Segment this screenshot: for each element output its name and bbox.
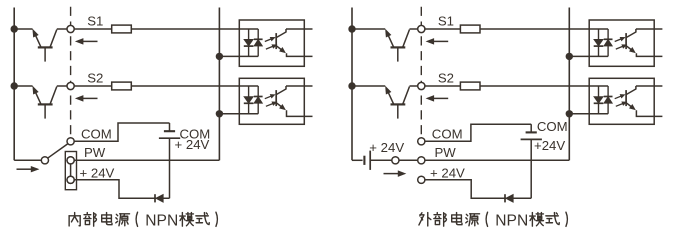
svg-text:COM: COM [81,126,112,141]
op-amp U2 optocoupler [216,78,313,124]
wire PW net riser [568,8,570,161]
wire [74,85,112,87]
wire arrow [433,97,448,99]
diode D2 [504,194,506,202]
node +24V terminal [67,176,74,183]
node [348,82,355,89]
battery B1 24V [169,123,171,131]
node PW terminal circle [67,157,74,164]
svg-text:+ 24V: + 24V [430,165,465,180]
wire bus to battery [352,159,363,161]
label caption [69,213,80,226]
op-amp U3 optocoupler [566,20,663,66]
diode D1 [154,194,156,202]
node [11,82,18,89]
jumper block J1 [65,152,76,190]
wire [480,28,589,30]
transistor Q1 [14,29,67,62]
svg-text:+ 24V: + 24V [369,140,404,155]
svg-text:COM: COM [432,126,463,141]
battery B3 24V [530,124,532,132]
wire [351,8,353,161]
svg-text:+ 24V: + 24V [175,137,210,152]
node S2 terminal [418,82,425,89]
resistor [460,25,480,33]
wire [420,7,422,138]
wire contact to PW [399,159,418,161]
wire arrow [433,40,448,42]
wire arrow [83,97,98,99]
node [348,25,355,32]
svg-text:PW: PW [84,145,106,160]
wire [13,8,15,161]
op-amp U1 optocoupler [216,20,313,66]
wire [480,85,589,87]
wire COM to battery right [425,124,532,141]
node [11,25,18,32]
svg-text:S2: S2 [438,70,454,85]
resistor [460,82,480,90]
svg-text:COM: COM [537,119,568,134]
svg-text:NPN: NPN [145,213,178,230]
node S2 terminal [67,82,74,89]
wire COM to battery [74,123,170,141]
label caption [419,213,431,226]
transistor Q4 [352,86,418,119]
node S1 terminal [67,25,74,32]
node COM terminal right [418,138,425,145]
svg-text:PW: PW [435,145,457,160]
wire battery minus down [169,138,171,198]
wire +24V terminal to diode right [425,180,532,199]
node +24V terminal circle [67,176,74,183]
svg-text:S1: S1 [438,13,454,28]
svg-text:NPN: NPN [495,213,528,230]
wire PW to riser right [425,159,570,161]
node PW terminal right [418,157,425,164]
switch SW1 [14,159,41,161]
svg-text:S1: S1 [87,13,103,28]
transistor Q3 [352,29,418,62]
wire [70,7,72,138]
wire PW to riser [74,159,219,161]
svg-text:S2: S2 [87,70,103,85]
node PW terminal [67,157,74,164]
svg-text:+24V: +24V [534,138,565,153]
node S1 terminal [418,25,425,32]
wire PW net riser [218,8,220,161]
wire arrow external [384,173,399,175]
transistor Q2 [14,86,67,119]
wire battery to contact [370,159,392,161]
wire [74,28,112,30]
op-amp U4 optocoupler [566,78,663,124]
wire +24V terminal to diode [74,180,170,199]
wire battery minus down right [530,139,532,198]
resistor [112,25,132,33]
wire [425,85,461,87]
jumper link PW-24V [70,160,72,180]
battery B2 external 24V [363,156,365,165]
wire [131,28,239,30]
wire [425,28,461,30]
wire [131,85,239,87]
node COM terminal [67,138,74,145]
node +24V terminal right [418,176,425,183]
resistor [112,82,132,90]
wire arrow switch [17,168,32,170]
svg-text:+ 24V: + 24V [80,165,115,180]
node contact [392,157,399,164]
wire arrow [83,40,98,42]
